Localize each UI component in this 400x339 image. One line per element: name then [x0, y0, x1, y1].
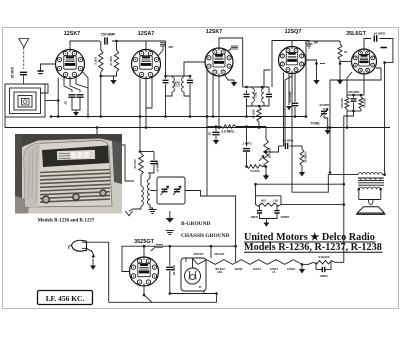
svg-text:.05: .05	[64, 101, 68, 105]
svg-text:35L6GT: 35L6GT	[215, 267, 225, 271]
wire osc line to chain tap	[207, 196, 236, 246]
wire V5 grid	[340, 62, 352, 81]
B-ground legend symbol	[166, 211, 174, 223]
wire V5 plate top	[364, 39, 371, 50]
capacitor C17 20MFD	[166, 246, 176, 293]
wire loop bottom to B- bus	[4, 117, 6, 128]
label B-GROUND	[181, 221, 210, 227]
svg-text:50,000: 50,000	[250, 169, 260, 173]
svg-text:COIL: COIL	[254, 91, 258, 98]
svg-text:.47MFD: .47MFD	[280, 215, 289, 219]
svg-text:.2MFD: .2MFD	[319, 274, 327, 278]
chassis legend symbol	[166, 231, 174, 235]
capacitor C18 .2MFD	[316, 262, 331, 278]
capacitor C14 .1MFD	[242, 127, 253, 166]
wire V3 pins down	[212, 76, 234, 128]
wire V4 pin grid return	[283, 73, 285, 147]
svg-text:35L6GT: 35L6GT	[346, 31, 366, 37]
volume wiper	[259, 156, 264, 162]
resistor R15 tap	[151, 245, 163, 251]
svg-text:35Z5GT: 35Z5GT	[134, 239, 154, 245]
resistor R6 22	[338, 41, 348, 65]
svg-text:I.F.: I.F.	[272, 271, 276, 274]
resistor R5 47,000	[252, 105, 270, 128]
capacitor C9 470MMF	[288, 73, 298, 117]
wire V1 plate to C1	[70, 41, 100, 50]
wire output B+ line	[254, 183, 345, 186]
svg-text:CHASSIS GROUND: CHASSIS GROUND	[181, 233, 229, 239]
trimmer CT2	[173, 186, 181, 195]
capacitor C3 .05MFD	[64, 95, 77, 110]
wire V6 plate riser	[143, 245, 146, 257]
capacitor C15 .05MFD coupling	[279, 139, 303, 150]
IF1 primary coil L2	[166, 76, 178, 96]
svg-text:Models R-1236 and R-1237: Models R-1236 and R-1237	[38, 219, 95, 224]
wire B- bus	[5, 126, 390, 129]
resistor R13 22,000	[133, 152, 143, 187]
resistor R2 47,000	[109, 41, 119, 72]
capacitor C4 .01MFD	[76, 95, 84, 112]
label V3 12SK7	[206, 29, 222, 35]
volume control R10 500,000	[264, 127, 272, 176]
wire IF1 top link	[164, 41, 191, 77]
tube V5 35L6GT	[352, 49, 377, 74]
speaker SP1	[356, 189, 385, 214]
output transformer T1 primary	[358, 173, 386, 176]
wire V3 plate top	[219, 38, 243, 87]
label CHASSIS GROUND	[181, 233, 229, 239]
wire V3 left pin down	[206, 70, 209, 196]
svg-text:Models R-1236, R-1237, R-1238: Models R-1236, R-1237, R-1238	[244, 242, 382, 253]
svg-text:47,000: 47,000	[109, 56, 113, 66]
resistor R14 240,000	[308, 255, 344, 264]
wire AVC bus	[50, 115, 306, 118]
IF2 secondary cap C8	[266, 87, 272, 106]
svg-text::: :	[181, 227, 182, 232]
chassis ground osc	[149, 208, 157, 214]
svg-text:.05 MFD: .05 MFD	[11, 66, 15, 79]
ground V4 cathode	[313, 64, 319, 85]
IF1 secondary cap C6	[187, 76, 193, 117]
resistor R9 3.3MEG	[207, 125, 266, 134]
svg-text:470,000: 470,000	[363, 98, 367, 108]
capacitor C10 .01MFD	[373, 32, 386, 42]
svg-text:12SQ7: 12SQ7	[287, 267, 296, 271]
wire box to switch line	[150, 191, 207, 197]
resistor R4 grid stopper	[229, 46, 239, 51]
svg-text:20 MFD: 20 MFD	[172, 265, 176, 275]
wire plate feed to transformer	[292, 74, 358, 193]
wire C10 to output transformer	[380, 39, 393, 175]
resistor R7 100,000	[340, 72, 352, 128]
svg-text:3.3 MEG.: 3.3 MEG.	[221, 130, 235, 134]
wire osc feed	[139, 117, 154, 161]
svg-text:TONE: TONE	[310, 122, 320, 126]
IF2 primary cap C7	[244, 90, 250, 117]
padder box	[157, 177, 185, 204]
tube V6 35Z5GT	[130, 257, 159, 286]
wire V1 cathode pins	[64, 78, 88, 93]
power plug	[69, 240, 87, 251]
svg-text:12SK7: 12SK7	[206, 29, 222, 35]
svg-text:.005 MFD: .005 MFD	[348, 90, 360, 94]
oscillator coil L6	[141, 186, 144, 209]
label V1 12SK7	[64, 31, 80, 37]
wire IF1 to V3 grid	[184, 62, 205, 76]
svg-text:47,000: 47,000	[252, 109, 256, 118]
resistor R12 10MEG	[300, 146, 308, 172]
capacitor C16 .04MMF	[148, 161, 160, 173]
wire V2 pins down	[140, 78, 152, 128]
svg-text:22: 22	[344, 50, 348, 54]
ground volume	[263, 174, 269, 180]
svg-text:12SK7: 12SK7	[270, 267, 279, 271]
wire V4 top	[272, 41, 292, 57]
svg-text:1 W.: 1 W.	[273, 198, 279, 202]
tube V1 12SK7	[56, 50, 85, 79]
label TONE	[310, 122, 320, 126]
capacitor C1 150MMF	[101, 33, 115, 45]
ground V4 pin5	[286, 74, 292, 111]
svg-text:470 MMF: 470 MMF	[288, 91, 292, 103]
svg-text:12SQ7: 12SQ7	[234, 267, 243, 271]
svg-text:10 MEG.: 10 MEG.	[304, 151, 308, 163]
svg-text:3,300: 3,300	[94, 57, 98, 65]
wire R1 R2 junction	[100, 72, 117, 118]
pilot lamp box	[181, 246, 211, 293]
capacitor antenna .05MFD	[11, 66, 28, 84]
output transformer T1 secondary	[358, 187, 383, 191]
wire wiper to C15	[265, 146, 279, 153]
svg-text:12SA7: 12SA7	[253, 267, 262, 271]
svg-text:35Z5GT: 35Z5GT	[193, 252, 204, 256]
svg-text:22,000: 22,000	[133, 159, 137, 169]
ground V3 cathode	[231, 80, 237, 87]
IF1 secondary coil L3	[177, 77, 191, 96]
legend separator	[181, 227, 182, 232]
title United Motors Delco Radio	[244, 232, 376, 243]
resistor R3 450	[158, 43, 173, 56]
wire V6 left loop	[122, 246, 144, 271]
oscillator coil L7	[147, 173, 150, 208]
ground below R1 R2	[110, 80, 116, 85]
wire C1 to V2 grid	[112, 40, 146, 50]
IF2 secondary coil L5	[262, 88, 269, 106]
svg-text:150 MMF: 150 MMF	[101, 33, 115, 37]
wire rectifier output bus	[144, 245, 236, 248]
ground V5 grid	[337, 80, 343, 85]
svg-text:.002: .002	[260, 198, 266, 202]
trimmer CT1	[161, 186, 169, 195]
svg-text:47: 47	[198, 285, 202, 289]
svg-text:I.F. 456 KC.: I.F. 456 KC.	[46, 294, 85, 303]
wire V2 plate top	[146, 40, 166, 42]
svg-text:.01 MFD: .01 MFD	[373, 32, 386, 36]
ground R12	[299, 172, 305, 177]
wire plug to rectifier	[87, 242, 109, 302]
wire B- to osc box	[97, 128, 134, 182]
loop antenna L1	[5, 84, 45, 117]
svg-text:COIL: COIL	[177, 80, 181, 87]
resistor R1 3,300	[94, 41, 104, 72]
ground below V1	[73, 112, 79, 116]
svg-text:500,000: 500,000	[268, 147, 272, 158]
label V5 35L6GT	[346, 31, 366, 37]
wire chain tap down	[234, 245, 237, 262]
transformer T1 core	[358, 178, 384, 185]
output network .002 1W	[250, 184, 289, 227]
wire V6 bottom	[143, 286, 152, 302]
ground tone	[325, 128, 331, 135]
ground V4 top right	[292, 41, 318, 49]
ground filament chain	[299, 264, 305, 273]
ground C13	[213, 140, 219, 145]
wire loop to AVC bus	[24, 78, 60, 118]
wire V4 plate down	[285, 74, 292, 147]
wire V5 cathode	[347, 74, 364, 96]
antenna	[19, 39, 29, 70]
svg-text:.04 MMF: .04 MMF	[156, 161, 160, 172]
svg-text:AVE.: AVE.	[217, 271, 223, 274]
label V2 12SA7	[138, 31, 154, 37]
svg-text:.4MFD: .4MFD	[250, 215, 258, 219]
label V6 35Z5GT	[134, 239, 154, 245]
svg-text:B-GROUND: B-GROUND	[181, 221, 210, 227]
tube V3 12SK7	[205, 48, 233, 76]
IF frequency box	[38, 291, 93, 305]
svg-text:35L6GT: 35L6GT	[214, 252, 225, 256]
wire V4 right pin	[306, 60, 326, 65]
pilot lamp LP1	[185, 258, 202, 289]
ground osc open	[125, 209, 141, 216]
wire tone riser	[344, 111, 354, 262]
svg-text:.1 MFD.: .1 MFD.	[242, 142, 253, 146]
label V4 12SQ7	[285, 29, 302, 35]
wire network to riser	[281, 203, 345, 206]
IF2 primary coil L4	[247, 87, 258, 106]
IF1 primary cap C5	[163, 76, 169, 117]
svg-text:.05: .05	[208, 132, 212, 136]
wire bottom return	[109, 294, 217, 303]
switch S1	[87, 248, 97, 270]
svg-text:12SQ7: 12SQ7	[285, 29, 302, 35]
svg-text:12SK7: 12SK7	[64, 31, 80, 37]
svg-text:.05 MFD: .05 MFD	[319, 103, 329, 107]
title Models R-1236 R-1237 R-1238	[244, 242, 383, 253]
caption Models R-1236 and R-1237	[38, 219, 95, 224]
tube V4 12SQ7	[279, 47, 306, 74]
capacitor C13 .05	[208, 127, 220, 141]
svg-text:240,000: 240,000	[318, 255, 329, 259]
wire V1 screen	[83, 72, 89, 118]
tube V2 12SA7	[132, 50, 161, 79]
wire AVC riser to R6	[305, 41, 340, 118]
resistor R11 50,000	[245, 165, 267, 173]
wire filament return	[169, 292, 218, 295]
tone capacitor C12	[319, 103, 329, 128]
svg-text:.05 MFD.: .05 MFD.	[282, 139, 295, 143]
radio cabinet photo	[15, 134, 122, 214]
svg-text:450: 450	[168, 45, 173, 49]
wire V1 grid lead	[41, 64, 56, 71]
filament ballast chain	[192, 252, 308, 274]
svg-text:100,000: 100,000	[340, 98, 344, 108]
wire IF2 to V4 grid	[264, 56, 272, 87]
resistor R8 470,000	[347, 94, 367, 113]
capacitor C11 .005MFD	[348, 90, 360, 111]
IF2 top link	[243, 86, 269, 89]
wire V5 screen to B+	[329, 68, 381, 174]
capacitor C2 grid bypass	[38, 71, 44, 74]
svg-text:12SA7: 12SA7	[138, 31, 154, 37]
